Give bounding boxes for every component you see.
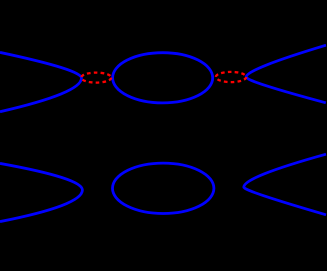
left vanishing cycle (red dashed ellipse) <box>81 73 111 83</box>
bottom center ellipse (blue) <box>113 163 214 213</box>
right vanishing cycle (red dashed ellipse) <box>216 72 246 82</box>
bottom-left cone (blue curve) <box>0 163 82 221</box>
bottom-right cone (blue curve) <box>244 154 326 215</box>
top-left cone (blue curve) <box>0 52 82 111</box>
top center ellipse (blue) <box>113 53 213 103</box>
top-right cone (blue curve) <box>246 45 326 103</box>
